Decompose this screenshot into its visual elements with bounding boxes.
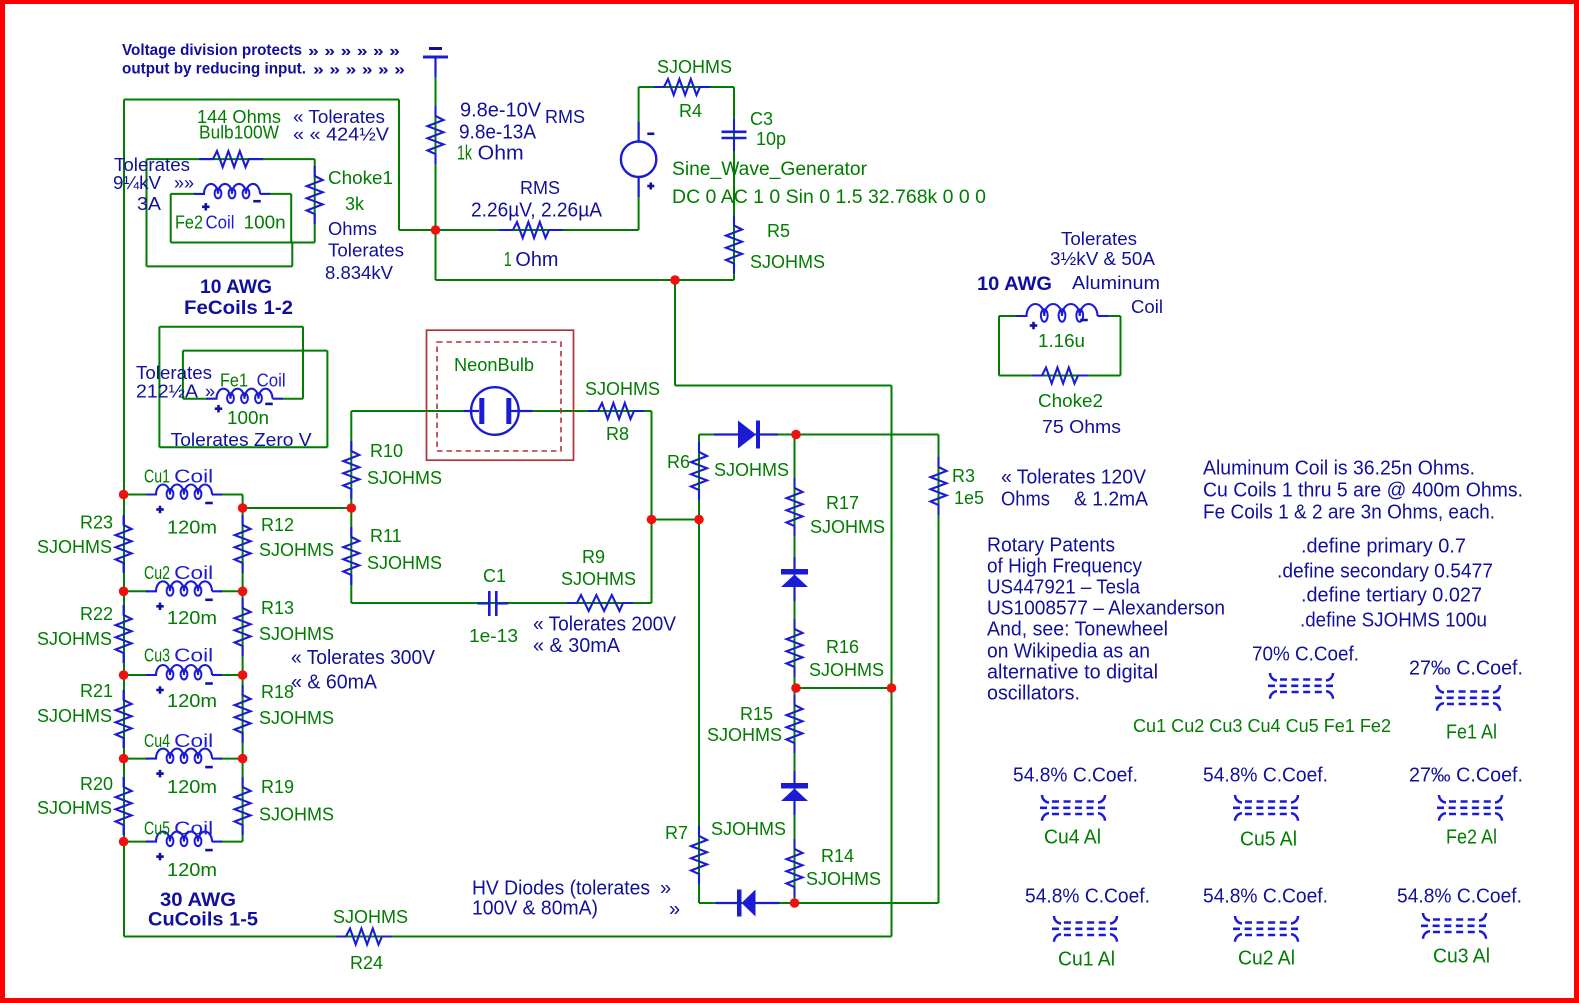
svg-text:R13: R13 [261,598,294,618]
svg-text:1e-13: 1e-13 [469,626,518,646]
svg-text:Tolerates: Tolerates [1061,229,1137,249]
svg-text:Fe2: Fe2 [175,213,203,233]
svg-text:30 AWG: 30 AWG [160,890,236,911]
svg-text:R19: R19 [261,777,294,797]
svg-text:Tolerates: Tolerates [114,155,190,175]
svg-text:R4: R4 [679,101,702,121]
svg-text:« Tolerates 300V: « Tolerates 300V [291,647,436,669]
svg-text:R12: R12 [261,515,294,535]
svg-text:R15: R15 [740,704,773,724]
svg-text:oscillators.: oscillators. [987,683,1080,705]
svg-text:« « 424½V: « « 424½V [293,125,389,145]
svg-text:SJOHMS: SJOHMS [259,708,334,728]
svg-text:output by reducing input.: output by reducing input. [122,61,306,78]
svg-text:Cu2 Al: Cu2 Al [1238,948,1295,970]
svg-text:SJOHMS: SJOHMS [707,725,782,745]
svg-text:Cu2: Cu2 [144,563,170,583]
svg-text:Sine_Wave_Generator: Sine_Wave_Generator [672,159,868,180]
svg-text:2.26µV, 2.26µA: 2.26µV, 2.26µA [471,200,603,222]
svg-text:R21: R21 [80,681,113,701]
svg-text:RMS: RMS [520,178,560,198]
svg-text:Ohms: Ohms [1001,489,1050,511]
svg-text:R9: R9 [582,547,605,567]
svg-text:SJOHMS: SJOHMS [714,460,789,480]
svg-text:Coil: Coil [174,731,213,751]
svg-text:& 1.2mA: & 1.2mA [1074,489,1149,511]
svg-text:100n: 100n [244,213,286,233]
svg-text:.define primary 0.7: .define primary 0.7 [1301,536,1466,558]
svg-text:212½A: 212½A [136,382,198,402]
svg-text:Coil: Coil [206,213,235,233]
svg-text:Fe2 Al: Fe2 Al [1446,827,1497,849]
svg-text:54.8% C.Coef.: 54.8% C.Coef. [1397,886,1522,908]
svg-text:And, see: Tonewheel: And, see: Tonewheel [987,619,1168,641]
svg-text:Choke1: Choke1 [328,168,393,188]
svg-text:9¼kV: 9¼kV [113,173,161,193]
svg-text:Fe Coils 1 & 2 are 3n Ohms, ea: Fe Coils 1 & 2 are 3n Ohms, each. [1203,502,1495,524]
svg-text:R14: R14 [821,846,854,866]
svg-text:8.834kV: 8.834kV [325,263,393,283]
svg-text:Cu1: Cu1 [144,467,170,487]
svg-text:R17: R17 [826,493,859,513]
svg-text:R8: R8 [606,424,629,444]
svg-text:120m: 120m [167,691,217,711]
svg-text:R20: R20 [80,774,113,794]
svg-text:« & 60mA: « & 60mA [291,672,378,694]
svg-text:10 AWG: 10 AWG [977,274,1052,295]
svg-text:54.8% C.Coef.: 54.8% C.Coef. [1025,886,1150,908]
svg-text:54.8% C.Coef.: 54.8% C.Coef. [1203,886,1328,908]
svg-text:120m: 120m [167,608,217,628]
svg-text:Fe1: Fe1 [220,370,248,390]
svg-text:»»: »» [174,173,194,193]
svg-text:SJOHMS: SJOHMS [333,907,408,927]
svg-text:Cu1 Cu2 Cu3 Cu4 Cu5 Fe1 Fe2: Cu1 Cu2 Cu3 Cu4 Cu5 Fe1 Fe2 [1133,716,1391,736]
svg-text:alternative to digital: alternative to digital [987,662,1158,684]
svg-text:SJOHMS: SJOHMS [259,540,334,560]
svg-text:1k: 1k [457,143,473,165]
svg-text:10p: 10p [756,129,786,149]
svg-text:Coil: Coil [174,819,213,839]
svg-text:Coil: Coil [257,370,286,390]
svg-text:R3: R3 [952,466,975,486]
svg-text:SJOHMS: SJOHMS [259,624,334,644]
svg-text:120m: 120m [167,860,217,880]
svg-text:3A: 3A [137,194,161,214]
svg-text:75 Ohms: 75 Ohms [1042,417,1121,437]
svg-text:120m: 120m [167,518,217,538]
svg-text:Coil: Coil [1131,297,1163,317]
svg-text:»: » [669,899,680,921]
svg-text:100V & 80mA): 100V & 80mA) [472,898,598,920]
svg-text:SJOHMS: SJOHMS [37,537,112,557]
svg-text:R23: R23 [80,513,113,533]
svg-text:Cu3: Cu3 [144,646,170,666]
svg-text:1: 1 [504,249,512,271]
svg-text:DC 0 AC 1 0 Sin 0 1.5 32.768k: DC 0 AC 1 0 Sin 0 1.5 32.768k 0 0 0 [672,187,986,208]
svg-text:SJOHMS: SJOHMS [810,517,885,537]
svg-text:SJOHMS: SJOHMS [561,569,636,589]
svg-text:Coil: Coil [174,646,213,666]
svg-text:C1: C1 [483,566,506,586]
svg-text:1.16u: 1.16u [1038,331,1085,351]
svg-text:3½kV & 50A: 3½kV & 50A [1050,249,1155,269]
svg-text:.define tertiary 0.027: .define tertiary 0.027 [1301,585,1482,607]
svg-text:Cu5: Cu5 [144,819,170,839]
svg-text:SJOHMS: SJOHMS [809,660,884,680]
svg-text:Ohm: Ohm [478,143,524,165]
svg-text:RMS: RMS [545,107,585,127]
svg-text:US1008577 – Alexanderson: US1008577 – Alexanderson [987,598,1225,620]
svg-text:.define secondary 0.5477: .define secondary 0.5477 [1277,561,1493,583]
svg-text:R10: R10 [370,441,403,461]
svg-text:Cu4: Cu4 [144,731,170,751]
svg-text:27‰ C.Coef.: 27‰ C.Coef. [1409,658,1523,680]
svg-text:SJOHMS: SJOHMS [657,57,732,77]
svg-text:Ohms: Ohms [328,219,377,239]
svg-text:C3: C3 [750,109,773,129]
svg-text:R6: R6 [667,452,690,472]
svg-text:Tolerates: Tolerates [136,363,212,383]
svg-text:R7: R7 [665,823,688,843]
svg-text:Voltage division protects: Voltage division protects [122,42,302,59]
svg-text:Cu4 Al: Cu4 Al [1044,827,1101,849]
svg-text:FeCoils 1-2: FeCoils 1-2 [184,298,293,319]
svg-text:54.8% C.Coef.: 54.8% C.Coef. [1013,765,1138,787]
svg-text:Aluminum Coil is 36.25n Ohms.: Aluminum Coil is 36.25n Ohms. [1203,458,1475,480]
svg-text:SJOHMS: SJOHMS [367,553,442,573]
svg-text:10 AWG: 10 AWG [200,277,272,298]
svg-text:« Tolerates 120V: « Tolerates 120V [1001,467,1147,489]
svg-text:»: » [205,382,215,402]
svg-text:HV Diodes (tolerates: HV Diodes (tolerates [472,878,650,900]
svg-text:Rotary Patents: Rotary Patents [987,535,1115,557]
svg-text:Coil: Coil [174,563,213,583]
svg-text:Cu5 Al: Cu5 Al [1240,829,1297,851]
svg-text:« & 30mA: « & 30mA [533,635,621,657]
svg-text:100n: 100n [227,408,269,428]
svg-text:R5: R5 [767,221,790,241]
svg-text:Tolerates: Tolerates [328,241,404,261]
svg-text:9.8e-13A: 9.8e-13A [459,122,537,144]
svg-text:SJOHMS: SJOHMS [367,468,442,488]
svg-text:27‰ C.Coef.: 27‰ C.Coef. [1409,765,1523,787]
svg-text:« Tolerates 200V: « Tolerates 200V [533,614,677,636]
svg-text:Choke2: Choke2 [1038,391,1103,411]
svg-text:R18: R18 [261,682,294,702]
svg-text:Tolerates Zero V: Tolerates Zero V [171,430,312,450]
svg-text:SJOHMS: SJOHMS [37,629,112,649]
svg-text:R24: R24 [350,953,383,973]
svg-text:NeonBulb: NeonBulb [454,355,534,375]
svg-text:Cu Coils 1 thru 5 are @ 400m O: Cu Coils 1 thru 5 are @ 400m Ohms. [1203,480,1523,502]
svg-text:SJOHMS: SJOHMS [37,706,112,726]
svg-text:Ohm: Ohm [515,249,558,271]
svg-text:120m: 120m [167,777,217,797]
svg-text:70% C.Coef.: 70% C.Coef. [1252,644,1359,666]
svg-text:SJOHMS: SJOHMS [37,798,112,818]
svg-text:1e5: 1e5 [954,488,984,508]
svg-text:Cu1 Al: Cu1 Al [1058,949,1115,971]
svg-text:Cu3 Al: Cu3 Al [1433,946,1490,968]
svg-text:54.8% C.Coef.: 54.8% C.Coef. [1203,765,1328,787]
svg-text:R11: R11 [370,526,402,546]
svg-text:.define SJOHMS 100u: .define SJOHMS 100u [1300,610,1487,632]
svg-text:Coil: Coil [174,467,213,487]
svg-text:» » » » » »: » » » » » » [313,62,405,79]
svg-text:SJOHMS: SJOHMS [259,805,334,825]
svg-text:Bulb100W: Bulb100W [199,123,279,143]
svg-text:R22: R22 [80,604,113,624]
svg-text:R16: R16 [826,637,859,657]
svg-text:Aluminum: Aluminum [1072,273,1160,293]
svg-text:on Wikipedia as an: on Wikipedia as an [987,641,1150,663]
svg-text:SJOHMS: SJOHMS [750,252,825,272]
svg-text:US447921 – Tesla: US447921 – Tesla [987,577,1141,599]
svg-text:9.8e-10V: 9.8e-10V [460,100,542,122]
svg-text:SJOHMS: SJOHMS [711,819,786,839]
svg-text:CuCoils 1-5: CuCoils 1-5 [148,909,258,930]
svg-text:SJOHMS: SJOHMS [585,379,660,399]
svg-text:»: » [660,878,671,900]
svg-text:Fe1 Al: Fe1 Al [1446,722,1497,744]
svg-text:» » » » » »: » » » » » » [308,43,400,60]
svg-text:of High Frequency: of High Frequency [987,556,1142,578]
svg-text:3k: 3k [345,194,365,214]
svg-text:SJOHMS: SJOHMS [806,869,881,889]
